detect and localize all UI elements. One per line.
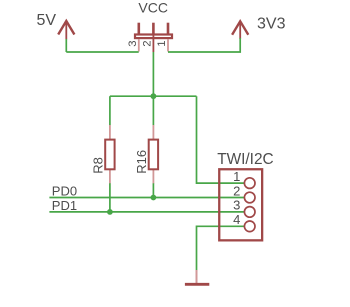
resistor R16 [134,125,158,183]
svg-text:1: 1 [233,169,240,184]
svg-text:3: 3 [127,41,139,47]
connector pin 3 [233,198,255,218]
resistor R8 [90,125,114,183]
svg-text:3V3: 3V3 [257,16,286,33]
connector TWI/I2C box [219,169,262,240]
jumper pin 3 stub [138,39,140,51]
jumper JP posts (top pins) [139,23,168,35]
connector pin 4 [233,212,255,232]
svg-text:TWI/I2C: TWI/I2C [217,151,273,168]
wire PD1 [49,211,244,213]
junction at pin2/bus [151,93,157,99]
junction R8/PD1 [107,209,113,215]
wire bus to connector pin1 [197,96,245,183]
wire gnd to connector pin4 [197,226,245,270]
jumper pin 1 stub [167,39,169,51]
svg-text:5V: 5V [37,12,57,29]
svg-text:4: 4 [233,212,240,227]
connector pin 1 [233,169,255,189]
svg-text:PD1: PD1 [52,198,77,213]
wire vcc bus horizontal [110,95,197,97]
wire PD0 [49,197,244,199]
svg-text:1: 1 [156,41,168,47]
svg-text:2: 2 [142,41,154,47]
wire R16 bottom to PD0 [152,183,154,198]
svg-text:PD0: PD0 [52,184,77,199]
wire 5V stem [65,39,67,52]
svg-text:R8: R8 [90,157,105,174]
svg-text:3: 3 [233,198,240,213]
svg-text:VCC: VCC [138,0,168,16]
wire jumper pin1 to 3V3 [168,38,240,52]
wire 5V to jumper pin3 [66,51,138,53]
wire jumper pin2 down [152,52,154,96]
supply arrow 3V3 [232,21,248,39]
jumper body [135,35,172,39]
svg-text:R16: R16 [134,150,149,174]
svg-text:2: 2 [233,183,240,198]
junction R16/PD0 [151,195,157,201]
wire R8 bottom to PD1 [109,183,111,212]
wire to R16 top [152,96,154,125]
connector pin 2 [233,183,255,203]
jumper pin 2 stub [152,34,154,52]
ground symbol [185,270,209,284]
wire to R8 top [109,96,111,125]
supply arrow 5V [58,21,74,39]
